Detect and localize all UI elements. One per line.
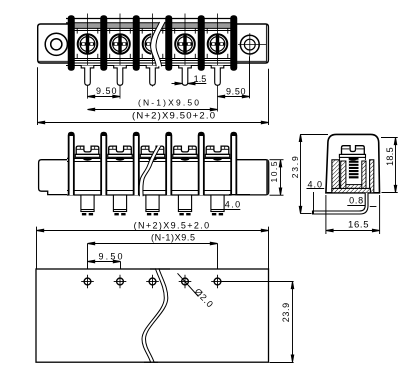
view 2: front elevation bbox=[39, 133, 269, 216]
hole 5 bbox=[211, 275, 224, 288]
dim 23.9 overall height (view3) bbox=[290, 134, 328, 213]
barrier wall 6 plan bbox=[230, 15, 237, 70]
centerline screw 2 bbox=[119, 14, 121, 99]
dim 18.5 (view3) bbox=[381, 138, 398, 193]
dim (N+2)X9.50+2.0 overall (view1) bbox=[38, 67, 269, 125]
screw thread shaft bbox=[349, 158, 359, 179]
barrier wall 4 front bbox=[166, 133, 171, 196]
svg-text:1.5: 1.5 bbox=[194, 74, 207, 84]
leader dia 2.0 bbox=[178, 273, 216, 309]
right mounting hole with crosshair bbox=[238, 33, 266, 56]
barrier wall 2 front bbox=[101, 133, 106, 196]
view 1: plan view of terminal block bbox=[38, 14, 269, 112]
rear wall top edge bbox=[66, 18, 236, 20]
break line view1 bbox=[151, 22, 165, 66]
svg-text:9.50: 9.50 bbox=[99, 252, 123, 262]
dimensions view 2 bbox=[37, 160, 284, 275]
dimensions view 3 bbox=[290, 134, 398, 234]
view 3: side cross-section bbox=[313, 134, 380, 214]
dim 9.50 left (view1) bbox=[88, 86, 121, 98]
screw M4 side view head bbox=[173, 146, 197, 161]
screw M2 plan (philips head) bbox=[110, 34, 130, 54]
dim 9.50 right (view1) bbox=[218, 56, 250, 98]
screw head (section) bbox=[342, 146, 365, 161]
body band front bbox=[67, 158, 236, 195]
hole 4 bbox=[179, 275, 192, 288]
solder pin 5 plan (T tab) bbox=[211, 66, 224, 86]
barrier wall 3 front bbox=[134, 133, 139, 196]
clamp right (hatched) bbox=[362, 161, 366, 188]
hole 1 bbox=[81, 275, 94, 288]
cell 2 wall edges bbox=[110, 28, 131, 58]
solder pin 1 plan (T tab) bbox=[81, 66, 94, 86]
dim 10.5 body height (view2) bbox=[269, 160, 284, 196]
svg-text:4.0: 4.0 bbox=[308, 179, 323, 189]
svg-text:4.0: 4.0 bbox=[225, 200, 240, 210]
hole 2 bbox=[114, 275, 127, 288]
screw M5 side view head bbox=[205, 146, 229, 161]
barrier wall 2 plan bbox=[100, 15, 107, 70]
hole 3 bbox=[146, 275, 159, 288]
svg-text:(N+2)X9.5+2.0: (N+2)X9.5+2.0 bbox=[134, 220, 210, 230]
body front face strip (gray) bbox=[66, 23, 236, 28]
solder pin 3 plan (T tab) bbox=[146, 66, 159, 86]
rect top edge redraw over break bbox=[150, 268, 170, 270]
section hatch bottom strip bbox=[332, 188, 371, 192]
dim (N-1)X9.50 (view1) bbox=[88, 98, 218, 111]
svg-text:23.9: 23.9 bbox=[290, 156, 300, 178]
clamp left (hatched) bbox=[341, 161, 346, 188]
left mounting flange block bbox=[38, 24, 68, 63]
barrier wall 3 plan bbox=[133, 15, 140, 70]
right mounting flange block bbox=[235, 24, 268, 63]
dim 4.0 leg length (view2) bbox=[221, 195, 250, 210]
cell 4 wall edges bbox=[175, 28, 196, 58]
clamp bottom (hatched) bbox=[341, 185, 366, 189]
cell 5 wall edges bbox=[207, 28, 228, 58]
solder leg 1 front bbox=[81, 195, 94, 215]
svg-text:(N-1)X9.5: (N-1)X9.5 bbox=[151, 232, 195, 242]
barrier wall 5 front bbox=[199, 133, 204, 196]
dim 4.0 pin protrusion (view3) bbox=[307, 179, 325, 213]
centerline screw 1 bbox=[87, 14, 89, 99]
svg-text:9.50: 9.50 bbox=[226, 87, 246, 97]
cavity edge lines bbox=[339, 157, 341, 160]
svg-text:9.50: 9.50 bbox=[96, 86, 117, 96]
dim 23.9 (view4) bbox=[222, 282, 294, 363]
solder leg 4 front bbox=[178, 195, 191, 215]
dim 9.50 (lower) bbox=[88, 252, 123, 275]
screw M2 side view head bbox=[108, 146, 132, 161]
centerline screw 4 bbox=[184, 14, 186, 84]
screw M1 plan (philips head) bbox=[78, 34, 98, 54]
housing profile bbox=[326, 134, 380, 192]
left end block front bbox=[39, 160, 67, 195]
dimensions view 1 bbox=[38, 56, 269, 125]
right end block front bbox=[236, 160, 269, 195]
section hatch left wall bbox=[332, 160, 340, 193]
body inner ledge line bbox=[66, 30, 236, 32]
barrier wall 1 plan bbox=[68, 15, 75, 70]
dim (N+2)X9.5+2.0 (lower) bbox=[37, 220, 269, 269]
left mounting hole bbox=[45, 33, 67, 55]
dim (N-1)X9.5 (lower) bbox=[88, 232, 218, 274]
svg-text:10.5: 10.5 bbox=[269, 161, 279, 182]
barrier wall 5 plan bbox=[198, 15, 205, 70]
dimensions view 4 bbox=[178, 273, 294, 362]
solder leg 2 front bbox=[113, 195, 126, 215]
dim 1.5 pin width (view1) bbox=[172, 74, 207, 85]
cell 3 wall edges bbox=[142, 28, 163, 58]
barrier wall 1 front bbox=[69, 133, 74, 196]
centerline screw 5 bbox=[217, 14, 219, 112]
section hatch right wall bbox=[370, 160, 374, 193]
solder leg 3 front bbox=[146, 195, 159, 215]
screw M4 plan (philips head) bbox=[175, 34, 195, 54]
dim 0.8 pin thickness (view3) bbox=[347, 196, 376, 207]
screw washer (section) bbox=[339, 154, 365, 157]
cell 1 wall edges bbox=[77, 28, 98, 58]
barrier wall 6 front bbox=[231, 133, 236, 196]
screw M3 side view head bbox=[140, 146, 164, 161]
svg-text:16.5: 16.5 bbox=[348, 219, 369, 230]
screw M1 side view head bbox=[75, 146, 99, 161]
break line view4 bbox=[142, 268, 168, 362]
screw M5 plan (philips head) bbox=[208, 34, 228, 54]
svg-text:0.8: 0.8 bbox=[349, 196, 363, 206]
svg-text:18.5: 18.5 bbox=[385, 147, 395, 166]
view 4: PCB drilling plan bbox=[36, 268, 269, 362]
break line view2 bbox=[139, 146, 161, 197]
screw M3 plan (philips head) bbox=[143, 34, 163, 54]
solder pin 2 plan (T tab) bbox=[114, 66, 127, 86]
solder pin 4 plan (T tab) bbox=[179, 66, 192, 86]
dim 16.5 width (view3) bbox=[326, 195, 380, 234]
barrier wall 4 plan bbox=[165, 15, 172, 70]
bent solder leg (section) bbox=[313, 193, 369, 214]
svg-text:(N-1)X9.50: (N-1)X9.50 bbox=[138, 98, 199, 108]
PCB outline bbox=[36, 269, 269, 362]
svg-text:(N+2)X9.50+2.0: (N+2)X9.50+2.0 bbox=[132, 111, 215, 122]
centerline screw 3 bbox=[152, 14, 154, 87]
svg-text:23.9: 23.9 bbox=[281, 303, 291, 323]
body bottom serration lines bbox=[66, 58, 236, 60]
solder leg 5 front bbox=[211, 195, 224, 215]
